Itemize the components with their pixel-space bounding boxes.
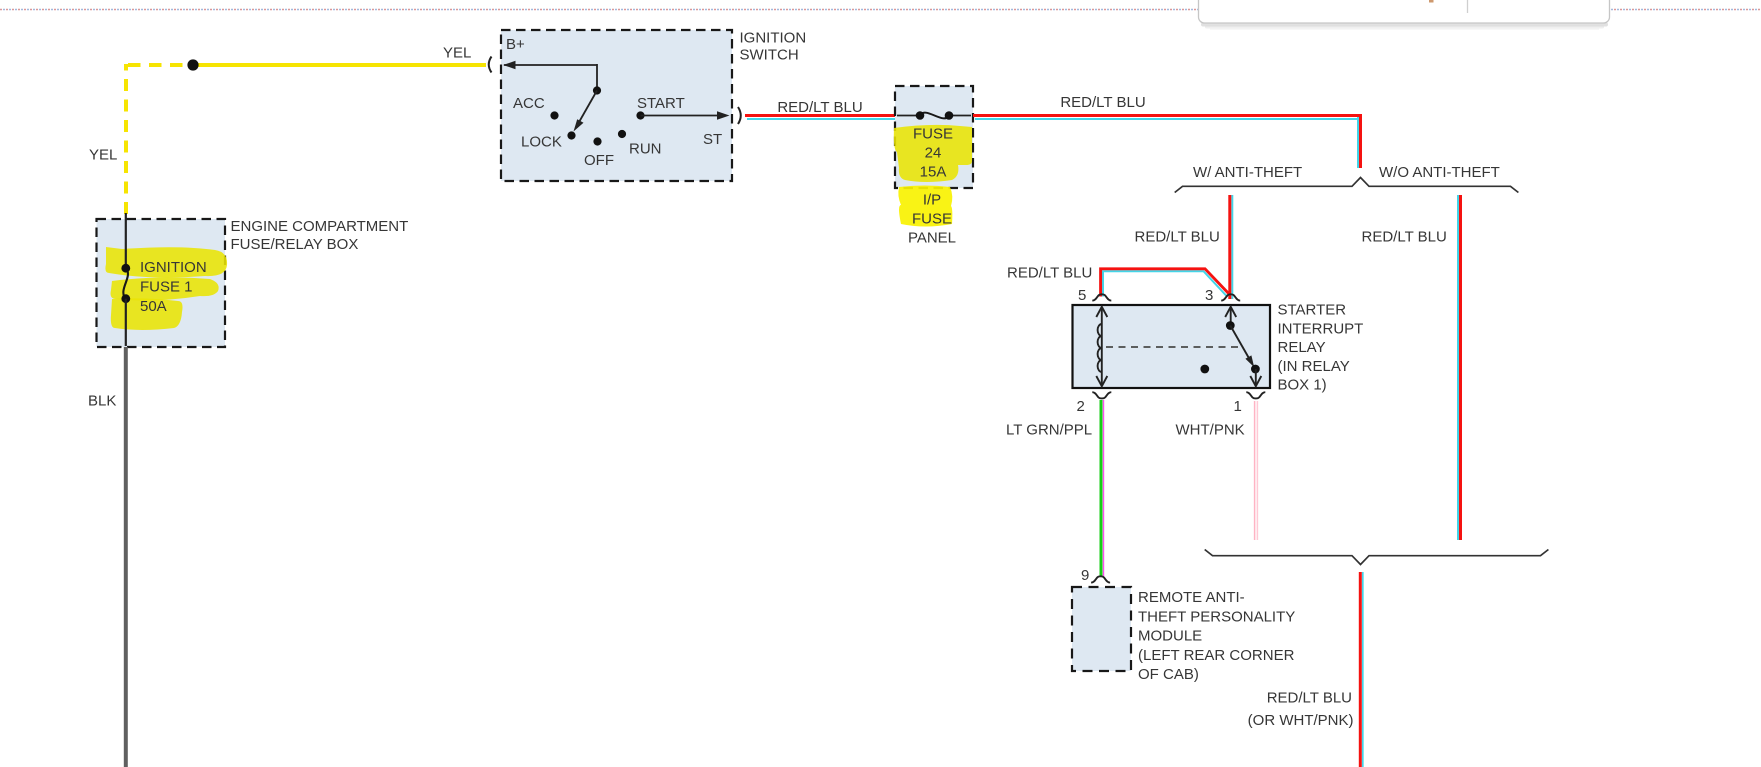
contact dot RUN	[618, 130, 626, 138]
engine compartment fuse/relay box	[97, 219, 226, 347]
svg-text:SWITCH: SWITCH	[740, 46, 799, 63]
svg-text:ST: ST	[703, 131, 722, 148]
relay movable contact arm with arrowhead	[1230, 326, 1254, 368]
svg-text:1: 1	[1234, 398, 1242, 415]
wire WHT/PNK from relay pin 1	[1255, 401, 1258, 540]
svg-text:15A: 15A	[920, 164, 947, 181]
label IGNITION FUSE 1 50A	[140, 259, 207, 315]
svg-text:RED/LT BLU: RED/LT BLU	[1267, 690, 1352, 707]
wire BLK to ground	[124, 347, 128, 767]
svg-text:BLK: BLK	[88, 393, 116, 410]
svg-text:FUSE: FUSE	[913, 126, 953, 143]
svg-text:REMOTE ANTI-: REMOTE ANTI-	[1138, 589, 1245, 606]
connector bracket ) at ST output	[738, 107, 741, 124]
starter interrupt relay box	[1073, 305, 1271, 388]
svg-text:START: START	[637, 95, 685, 112]
svg-text:(OR WHT/PNK): (OR WHT/PNK)	[1248, 712, 1354, 729]
svg-text:(IN RELAY: (IN RELAY	[1278, 358, 1350, 375]
svg-text:YEL: YEL	[443, 45, 471, 62]
svg-text:RED/LT BLU: RED/LT BLU	[1007, 265, 1092, 282]
svg-text:5: 5	[1078, 287, 1086, 304]
highlight marker over FUSE 24 15A	[894, 125, 972, 182]
svg-text:FUSE/RELAY BOX: FUSE/RELAY BOX	[231, 236, 359, 253]
highlight marker over IGNITION	[105, 247, 227, 277]
ignition switch box	[501, 30, 732, 181]
wire RED/LT BLU (OR WHT/PNK) output	[1360, 572, 1363, 767]
highlight marker over 50A	[111, 298, 183, 330]
fuse panel box	[895, 86, 973, 188]
label REMOTE ANTI-THEFT PERSONALITY MODULE	[1138, 589, 1295, 683]
label ENGINE COMPARTMENT FUSE/RELAY BOX	[231, 218, 409, 253]
wire RED/LT BLU w/anti-theft branch to relay pin 3	[1230, 195, 1233, 299]
svg-text:LT GRN/PPL: LT GRN/PPL	[1006, 422, 1092, 439]
svg-text:YEL: YEL	[89, 147, 117, 164]
label IGNITION SWITCH	[740, 30, 807, 64]
fuse F24 element	[897, 111, 971, 120]
relay contact pivot dot	[1226, 321, 1235, 330]
highlight marker over I/P FUSE	[898, 186, 952, 227]
wire LT GRN/PPL relay pin 2 to module pin 9	[1101, 400, 1104, 576]
wire RED/LT BLU w/o anti-theft branch	[1458, 195, 1461, 540]
relay contact pin 3 lead with up arrow	[1225, 307, 1236, 323]
junction dot on YEL wire	[187, 59, 198, 70]
label STARTER INTERRUPT RELAY	[1278, 302, 1364, 394]
svg-text:W/ ANTI-THEFT: W/ ANTI-THEFT	[1193, 164, 1302, 181]
svg-text:9: 9	[1081, 567, 1089, 584]
svg-text:2: 2	[1077, 398, 1085, 415]
svg-text:I/P: I/P	[923, 192, 941, 209]
svg-text:THEFT PERSONALITY: THEFT PERSONALITY	[1138, 608, 1295, 625]
svg-text:RUN: RUN	[629, 141, 662, 158]
highlight marker over FUSE 1	[111, 277, 219, 300]
svg-text:IGNITION: IGNITION	[740, 30, 807, 47]
wire YEL solid to ignition switch	[193, 63, 486, 67]
relay pin 3 connector arc	[1221, 294, 1240, 300]
svg-text:B+: B+	[506, 36, 525, 53]
label FUSE 24 15A	[913, 126, 953, 181]
label I/P FUSE PANEL	[908, 192, 956, 247]
svg-text:RELAY: RELAY	[1278, 339, 1326, 356]
wire to B+ with arrow	[503, 61, 597, 88]
relay pin 5 connector arc	[1092, 294, 1111, 300]
relay pin 1 lead with down arrow	[1250, 369, 1261, 386]
contact dot OFF	[593, 137, 601, 145]
relay internal dashed link	[1106, 346, 1238, 348]
module pin 9 connector arc	[1091, 576, 1110, 582]
svg-text:W/O ANTI-THEFT: W/O ANTI-THEFT	[1379, 164, 1500, 181]
svg-text:ENGINE COMPARTMENT: ENGINE COMPARTMENT	[231, 218, 409, 235]
wire RED/LT BLU switch to fuse panel	[745, 116, 895, 120]
svg-text:PANEL: PANEL	[908, 230, 956, 247]
svg-text:INTERRUPT: INTERRUPT	[1278, 320, 1364, 337]
svg-text:OFF: OFF	[584, 152, 614, 169]
relay contact dot pin 1	[1251, 365, 1260, 374]
svg-text:(LEFT REAR CORNER: (LEFT REAR CORNER	[1138, 647, 1295, 664]
svg-text:STARTER: STARTER	[1278, 302, 1347, 319]
relay coil with arrows (pins 5-2)	[1096, 307, 1107, 386]
svg-text:RED/LT BLU: RED/LT BLU	[1060, 94, 1145, 111]
svg-text:RED/LT BLU: RED/LT BLU	[777, 99, 862, 116]
svg-text:FUSE 1: FUSE 1	[140, 279, 193, 296]
wire RED/LT BLU fuse panel to split	[973, 116, 1361, 169]
svg-text:RED/LT BLU: RED/LT BLU	[1135, 229, 1220, 246]
svg-text:ACC: ACC	[513, 95, 545, 112]
split over-brace W/ and W/O ANTI-THEFT	[1175, 178, 1519, 193]
popup panel top right	[1199, 0, 1610, 30]
relay pin 2 connector arc (below)	[1092, 392, 1111, 398]
svg-text:OF CAB): OF CAB)	[1138, 666, 1199, 683]
contact dot START	[636, 111, 644, 119]
remote anti-theft personality module box	[1072, 587, 1131, 671]
svg-text:RED/LT BLU: RED/LT BLU	[1362, 229, 1447, 246]
wire YEL dashed vertical	[124, 64, 128, 214]
fuse IGNITION FUSE 1 element	[121, 213, 130, 346]
page boundary dotted line	[0, 9, 1761, 11]
svg-text:FUSE: FUSE	[912, 211, 952, 228]
svg-text:LOCK: LOCK	[521, 134, 562, 151]
wire START to ST output with arrow	[641, 111, 730, 119]
svg-text:3: 3	[1205, 287, 1213, 304]
svg-text:50A: 50A	[140, 298, 167, 315]
label RED/LT BLU (OR WHT/PNK)	[1248, 690, 1354, 730]
relay pin 1 connector arc (below)	[1246, 392, 1265, 398]
svg-text:WHT/PNK: WHT/PNK	[1176, 422, 1245, 439]
contact dot LOCK	[567, 131, 575, 139]
svg-text:24: 24	[925, 145, 942, 162]
switch arm with arrowhead toward LOCK	[574, 91, 598, 132]
wire YEL dashed horizontal	[128, 63, 190, 67]
switch common dot	[593, 86, 601, 94]
connector bracket ( at B+ input	[489, 57, 492, 73]
svg-text:MODULE: MODULE	[1138, 628, 1202, 645]
svg-text:BOX 1): BOX 1)	[1278, 377, 1327, 394]
merge under-brace	[1205, 550, 1549, 565]
relay unused contact dot	[1200, 365, 1209, 374]
wire RED/LT BLU feed to relay pin 5	[1101, 269, 1230, 297]
contact dot ACC	[550, 111, 558, 119]
svg-text:IGNITION: IGNITION	[140, 259, 207, 276]
